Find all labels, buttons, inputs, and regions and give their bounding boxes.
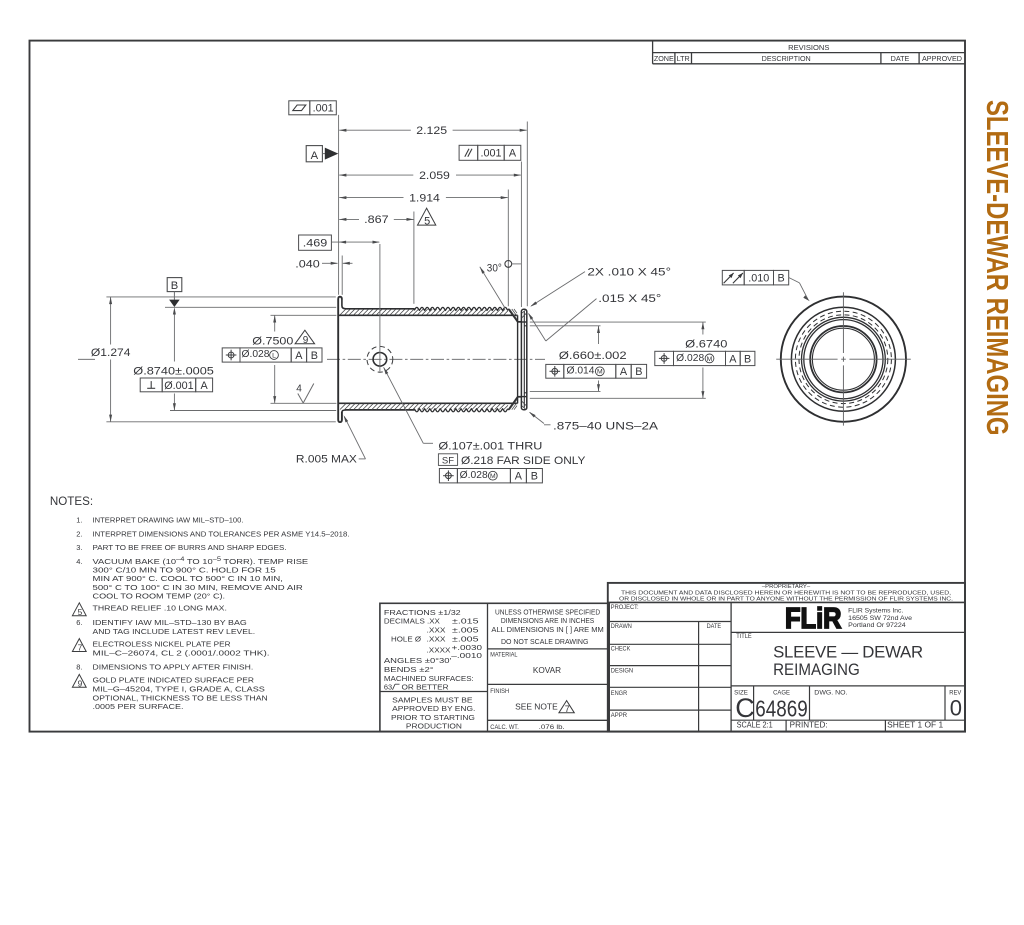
svg-text:7: 7 — [78, 643, 83, 653]
svg-text:2.: 2. — [76, 529, 82, 538]
svg-text:MIL–C–26074, CL 2 (.0001/.0: MIL–C–26074, CL 2 (.0001/.0002 THK). — [93, 649, 270, 658]
svg-text:CALC. WT.: CALC. WT. — [490, 724, 519, 731]
svg-text:.XXXX: .XXXX — [427, 646, 451, 655]
svg-text:63: 63 — [384, 682, 392, 691]
svg-text:A: A — [620, 366, 628, 378]
scale printed sheet row — [731, 720, 965, 731]
chamfer note 2X .010 X 45 — [530, 266, 671, 306]
svg-text:.040: .040 — [295, 258, 320, 270]
svg-text:1.: 1. — [76, 515, 82, 524]
svg-text:2.059: 2.059 — [419, 170, 450, 182]
svg-text:ALL DIMENSIONS IN [ ] ARE: ALL DIMENSIONS IN [ ] ARE MM — [491, 627, 603, 634]
svg-text:Ø.014: Ø.014 — [567, 366, 595, 377]
datum B flag — [167, 278, 182, 307]
svg-text:KOVAR: KOVAR — [533, 666, 561, 675]
svg-text:Ø.107±.001 THRU: Ø.107±.001 THRU — [438, 441, 542, 453]
fillet callout R.005 MAX — [296, 415, 366, 465]
svg-text:16505 SW 72nd Ave: 16505 SW 72nd Ave — [848, 615, 912, 622]
svg-text:OPTIONAL, THICKNESS TO BE: OPTIONAL, THICKNESS TO BE LESS THAN — [93, 693, 268, 702]
dimension 2.059 — [339, 170, 521, 182]
dimension 2.125 — [339, 125, 527, 137]
total runout FCF with leader — [722, 270, 810, 301]
svg-text:PRODUCTION: PRODUCTION — [406, 721, 462, 730]
svg-text:OR BETTER: OR BETTER — [402, 682, 449, 691]
svg-text:FLiR: FLiR — [785, 603, 842, 635]
hole callout dia .107 — [384, 367, 587, 483]
svg-text:.867: .867 — [364, 214, 389, 226]
svg-text:PRINTED:: PRINTED: — [790, 720, 828, 729]
svg-text:APPR: APPR — [611, 712, 627, 719]
svg-text:SLEEVE-DEWAR REIMAGING: SLEEVE-DEWAR REIMAGING — [980, 100, 1014, 436]
unless otherwise specified block — [488, 610, 609, 732]
extension lines flange diameter — [106, 297, 335, 422]
svg-text:.469: .469 — [303, 238, 328, 250]
right end taper (30 deg) — [508, 309, 521, 410]
extension line taper start — [507, 190, 509, 307]
svg-text:8.: 8. — [76, 662, 82, 671]
FLIR logo — [785, 603, 842, 635]
svg-text:LTR: LTR — [677, 54, 690, 63]
end view centerlines — [776, 292, 911, 425]
notes block — [50, 495, 350, 711]
svg-text:TITLE: TITLE — [736, 633, 752, 640]
30 deg chamfer callout — [480, 261, 521, 309]
svg-text:MATERIAL: MATERIAL — [490, 651, 517, 658]
small cross hole — [367, 244, 393, 372]
svg-text:C: C — [735, 693, 755, 723]
svg-text:IDENTIFY IAW MIL–STD–130 BY: IDENTIFY IAW MIL–STD–130 BY BAG — [93, 618, 247, 627]
svg-text:DIMENSIONS ARE IN INCHES: DIMENSIONS ARE IN INCHES — [501, 618, 595, 625]
svg-text:2X .010 X 45°: 2X .010 X 45° — [587, 266, 671, 278]
extension line thread relief — [413, 212, 415, 304]
svg-text:DESIGN: DESIGN — [611, 667, 634, 674]
svg-text:SEE NOTE: SEE NOTE — [515, 703, 558, 712]
svg-text:A: A — [295, 350, 303, 362]
svg-text:–PROPRIETARY–: –PROPRIETARY– — [762, 584, 811, 590]
svg-text:M: M — [597, 369, 603, 376]
svg-text:ELECTROLESS NICKEL PLATE PE: ELECTROLESS NICKEL PLATE PER — [93, 640, 232, 649]
extension line datum A face — [338, 115, 340, 295]
svg-text:300° C/10 MIN TO 900° C. H: 300° C/10 MIN TO 900° C. HOLD FOR 15 — [93, 566, 276, 575]
extension line flange lip right — [341, 256, 343, 295]
svg-text:B: B — [777, 273, 784, 285]
svg-text:Ø.001: Ø.001 — [164, 380, 193, 392]
extension lines dia .660 — [530, 326, 601, 392]
svg-text:Ø.7500: Ø.7500 — [252, 336, 293, 348]
svg-text:6.: 6. — [76, 618, 82, 627]
svg-text:INTERPRET DRAWING IAW MIL–S: INTERPRET DRAWING IAW MIL–STD–100. — [93, 515, 244, 524]
svg-text:.0005 PER SURFACE.: .0005 PER SURFACE. — [93, 702, 184, 711]
bore lines — [338, 315, 517, 403]
svg-text:A: A — [729, 353, 737, 365]
svg-text:1.914: 1.914 — [409, 192, 440, 204]
svg-text:FLIR Systems Inc.: FLIR Systems Inc. — [848, 608, 903, 615]
svg-text:HOLE Ø: HOLE Ø — [391, 635, 421, 644]
datum A flag — [306, 146, 338, 162]
svg-text:B: B — [531, 471, 538, 483]
dimension dia .6740 with position FCF — [655, 322, 755, 398]
svg-text:Ø.028: Ø.028 — [242, 349, 270, 360]
sleeve outer diameter lines — [345, 309, 415, 410]
svg-text:9: 9 — [303, 335, 309, 346]
title block outline — [608, 583, 965, 732]
svg-text:DATE: DATE — [707, 623, 722, 630]
svg-text:.010: .010 — [748, 273, 769, 285]
svg-text:.015 X 45°: .015 X 45° — [598, 293, 661, 305]
svg-text:4.: 4. — [76, 557, 82, 566]
svg-text:FINISH: FINISH — [490, 688, 509, 695]
svg-text:.XXX: .XXX — [427, 635, 446, 644]
svg-text:M: M — [490, 473, 496, 480]
svg-text:ZONE: ZONE — [654, 54, 674, 63]
svg-text:DIMENSIONS TO APPLY AFTER: DIMENSIONS TO APPLY AFTER FINISH. — [93, 662, 254, 671]
dimension .040 — [295, 258, 352, 270]
svg-text:4: 4 — [296, 384, 302, 395]
svg-text:THREAD RELIEF .10 LONG MAX: THREAD RELIEF .10 LONG MAX. — [93, 603, 227, 612]
svg-text:Ø.8740±.0005: Ø.8740±.0005 — [133, 366, 214, 378]
flatness FCF — [289, 101, 337, 115]
proprietary notice — [619, 584, 953, 603]
dimension 1.914 — [339, 192, 508, 204]
svg-text:7: 7 — [565, 704, 570, 714]
svg-text:BENDS ±2°: BENDS ±2° — [384, 665, 434, 674]
svg-text:M: M — [707, 356, 713, 363]
svg-text:B: B — [744, 353, 751, 365]
svg-text:FRACTIONS ±1/32: FRACTIONS ±1/32 — [384, 608, 461, 617]
svg-text:SAMPLES MUST BE: SAMPLES MUST BE — [392, 695, 472, 704]
extension line end face — [526, 122, 528, 307]
svg-text:ANGLES ±0°30': ANGLES ±0°30' — [384, 656, 452, 665]
thread crests (serrated profile) — [414, 307, 508, 411]
svg-text:CHECK: CHECK — [611, 646, 631, 653]
dimension .867 with flag 5 — [339, 208, 436, 227]
svg-text:REVISIONS: REVISIONS — [788, 43, 829, 52]
svg-text:SCALE 2:1: SCALE 2:1 — [737, 720, 774, 729]
svg-text:GOLD PLATE INDICATED SURFAC: GOLD PLATE INDICATED SURFACE PER — [93, 676, 255, 685]
svg-text:DWG. NO.: DWG. NO. — [814, 689, 847, 696]
svg-text:PROJECT:: PROJECT: — [611, 604, 639, 611]
svg-text:DECIMALS .XX: DECIMALS .XX — [384, 617, 440, 626]
svg-text:Ø1.274: Ø1.274 — [91, 347, 131, 359]
extension line 2.059 — [520, 162, 522, 308]
svg-text:A: A — [515, 471, 523, 483]
svg-text:APPROVED BY ENG.: APPROVED BY ENG. — [392, 704, 475, 713]
svg-text:A: A — [509, 148, 517, 160]
extension lines dia .6740 — [530, 322, 706, 398]
svg-text:0: 0 — [950, 696, 962, 721]
svg-text:64869: 64869 — [755, 696, 807, 722]
svg-text:REIMAGING: REIMAGING — [773, 660, 860, 679]
svg-text:INTERPRET DIMENSIONS AND TO: INTERPRET DIMENSIONS AND TOLERANCES PER … — [93, 529, 350, 538]
size cage dwg rev row — [731, 686, 965, 723]
svg-text:.001: .001 — [313, 103, 334, 115]
svg-text:.001: .001 — [480, 148, 501, 160]
extension lines tube OD — [165, 307, 336, 410]
svg-text:B: B — [171, 280, 178, 292]
svg-text:A: A — [311, 150, 319, 162]
tolerance block — [380, 603, 609, 731]
svg-text:Ø.028: Ø.028 — [460, 470, 488, 481]
svg-text:500° C TO 100° C IN 30 MI: 500° C TO 100° C IN 30 MIN, REMOVE AND A… — [93, 583, 304, 592]
svg-text:Ø.218 FAR SIDE ONLY: Ø.218 FAR SIDE ONLY — [461, 455, 586, 467]
svg-text:B: B — [311, 350, 318, 362]
svg-text:Ø.660±.002: Ø.660±.002 — [559, 350, 627, 362]
svg-text:Portland Or 97224: Portland Or 97224 — [848, 622, 906, 629]
svg-text:SLEEVE — DEWAR: SLEEVE — DEWAR — [773, 642, 923, 661]
title area — [731, 632, 965, 678]
svg-text:–.0010: –.0010 — [451, 651, 482, 660]
svg-text:A: A — [200, 380, 208, 392]
svg-text:±.005: ±.005 — [452, 626, 479, 635]
svg-text:THIS DOCUMENT AND DATA DIS: THIS DOCUMENT AND DATA DISCLOSED HEREIN … — [621, 590, 951, 596]
right end ring — [518, 309, 527, 410]
drawing frame border — [30, 41, 966, 732]
dimension dia 1.274 — [91, 297, 131, 422]
svg-text:B: B — [635, 366, 642, 378]
svg-text:NOTES:: NOTES: — [50, 495, 93, 508]
extension lines bore — [271, 315, 337, 403]
svg-text:±.015: ±.015 — [452, 617, 479, 626]
sleeve flange (left lip) — [338, 297, 345, 422]
svg-text:30°: 30° — [487, 262, 502, 274]
main centerline — [78, 358, 95, 360]
svg-text:PART TO BE FREE OF BURRS: PART TO BE FREE OF BURRS AND SHARP EDGES… — [93, 543, 287, 552]
svg-text:.XXX: .XXX — [427, 626, 446, 635]
svg-text:APPROVED: APPROVED — [922, 54, 962, 63]
svg-text:MIL–G–45204, TYPE I, GRADE: MIL–G–45204, TYPE I, GRADE A, CLASS — [93, 685, 265, 694]
svg-text:2.125: 2.125 — [416, 125, 447, 137]
svg-text:DATE: DATE — [891, 54, 910, 63]
svg-text:Ø.6740: Ø.6740 — [685, 338, 727, 350]
chamfer note .015 X 45 — [528, 293, 661, 341]
svg-text:ENGR: ENGR — [611, 690, 628, 697]
dimension .469 (basic, boxed) — [299, 235, 380, 250]
end view circles — [781, 297, 906, 422]
FLIR address — [848, 608, 912, 629]
vertical sidebar title SLEEVE-DEWAR REIMAGING — [980, 100, 1014, 436]
svg-text:L: L — [272, 352, 276, 359]
svg-text:.875–40 UNS–2A: .875–40 UNS–2A — [553, 420, 659, 432]
revisions table — [653, 41, 965, 64]
svg-text:AND TAG INCLUDE LATEST REV: AND TAG INCLUDE LATEST REV LEVEL. — [93, 627, 256, 636]
svg-text:UNLESS OTHERWISE SPECIFIED: UNLESS OTHERWISE SPECIFIED — [495, 610, 600, 617]
svg-text:DO NOT SCALE DRAWING: DO NOT SCALE DRAWING — [501, 639, 589, 646]
svg-text:VACUUM BAKE (10–4 TO 10–5: VACUUM BAKE (10–4 TO 10–5 TORR). TEMP RI… — [93, 557, 309, 566]
svg-text:SHEET 1 OF 1: SHEET 1 OF 1 — [887, 721, 944, 730]
dimension dia .8740 with perpendicularity FCF — [133, 307, 214, 410]
dimension dia .660 with position FCF — [546, 326, 647, 392]
svg-text:5: 5 — [78, 607, 83, 617]
svg-text:R.005 MAX: R.005 MAX — [296, 453, 358, 465]
thread callout .875-40 UNS-2A — [529, 412, 659, 432]
svg-text:9: 9 — [78, 679, 83, 689]
svg-text:DESCRIPTION: DESCRIPTION — [762, 54, 811, 63]
dimension dia .7500 with flag 9 and position FCF — [222, 315, 322, 403]
svg-text:DRAWN: DRAWN — [611, 623, 632, 630]
svg-text:Ø.028: Ø.028 — [676, 353, 704, 364]
svg-text:OR DISCLOSED IN WHOLE OR: OR DISCLOSED IN WHOLE OR IN PART TO ANYO… — [619, 597, 953, 603]
svg-text:COOL TO ROOM TEMP (20° C).: COOL TO ROOM TEMP (20° C). — [93, 592, 226, 601]
surface finish symbol 4 — [296, 384, 314, 404]
svg-text:SF: SF — [442, 455, 454, 466]
title block left column (sign-off rows) — [608, 602, 731, 731]
parallelism FCF — [459, 145, 521, 160]
svg-text:.076 lb.: .076 lb. — [539, 724, 565, 731]
svg-text:5: 5 — [424, 215, 430, 227]
svg-text:3.: 3. — [76, 543, 82, 552]
section hatching — [340, 309, 526, 410]
